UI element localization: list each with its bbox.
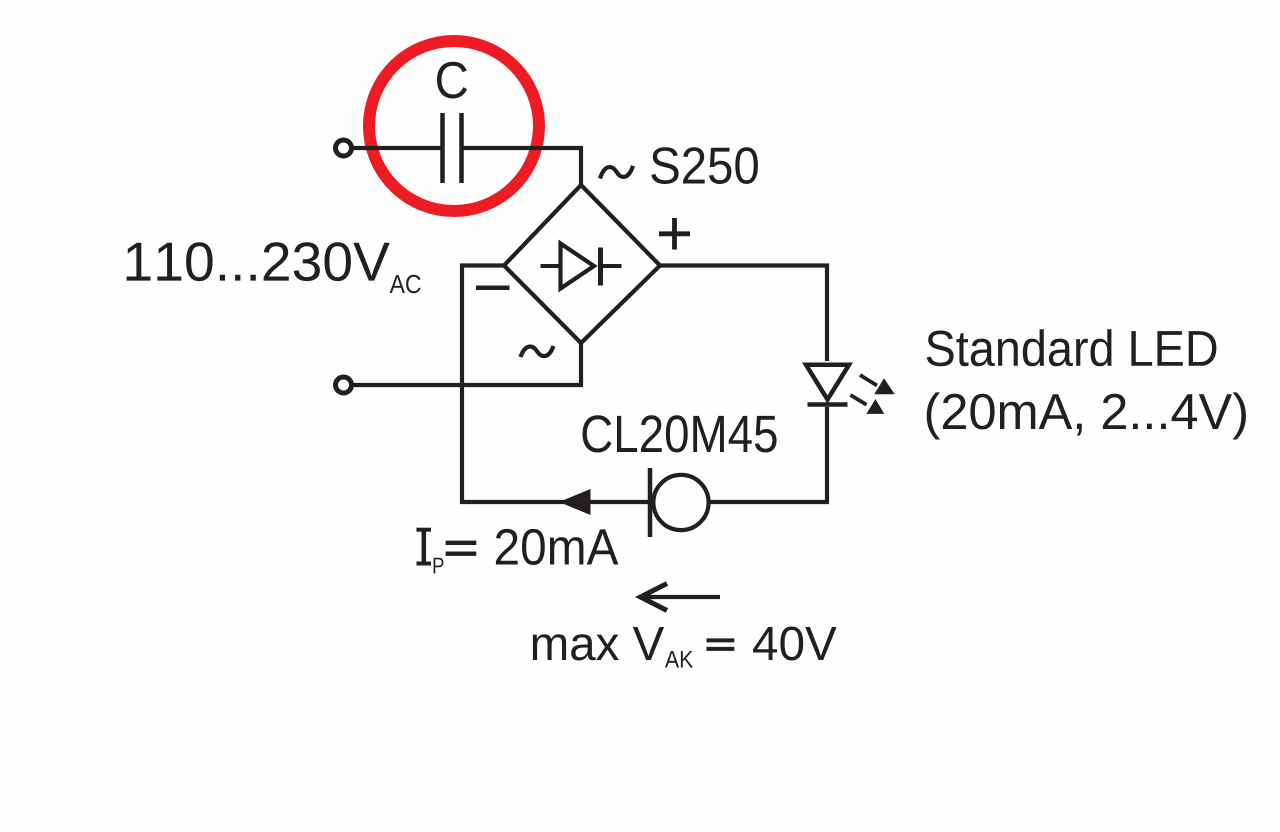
input terminal (top) — [336, 140, 352, 156]
label AC subscript — [390, 275, 421, 294]
label I (serifed) of Ip — [417, 530, 432, 564]
label 40V — [753, 627, 837, 661]
tilde top (AC mark) — [600, 166, 633, 179]
label C — [437, 62, 467, 99]
wire bridge left to left rail — [462, 266, 504, 505]
wire bridge right to LED — [660, 266, 827, 362]
current direction arrow (standalone) — [640, 584, 720, 611]
label S250 — [651, 147, 758, 184]
tilde bottom (AC mark) — [521, 346, 554, 357]
current flow arrowhead on rail — [559, 489, 591, 515]
label AK subscript — [665, 651, 693, 668]
wire capacitor to bridge top — [463, 148, 581, 186]
label = of Ip equation — [446, 543, 477, 554]
input terminal (bottom) — [336, 377, 352, 393]
bridge internal diode — [541, 244, 622, 289]
bottom rail left segment — [460, 500, 652, 504]
label CL20M45 — [583, 415, 777, 452]
wire terminal 2 to bridge bottom — [352, 383, 583, 387]
current regulator bar — [648, 468, 653, 537]
capacitor C plates — [443, 113, 462, 183]
wire bridge bottom vertex down — [579, 343, 583, 385]
LED cathode bar — [808, 402, 848, 407]
label Standard LED — [927, 329, 1217, 366]
LED light arrow 1 — [860, 375, 895, 394]
bridge rectifier S250 diamond — [504, 185, 660, 343]
label max V — [533, 627, 664, 661]
label = 40V — [707, 640, 735, 649]
LED light arrow 2 — [851, 395, 885, 414]
label 20mA — [496, 529, 619, 565]
label 110...230V — [127, 242, 390, 281]
LED D1 triangle — [806, 365, 849, 400]
bottom rail right segment — [709, 500, 829, 504]
plus sign — [659, 218, 690, 250]
label P subscript — [434, 558, 444, 574]
label (20mA, 2...4V) — [927, 392, 1246, 439]
minus sign — [476, 286, 510, 291]
wire terminal to capacitor — [352, 146, 441, 150]
current regulator circle CL20M45 — [653, 475, 708, 530]
wire LED to bottom rail — [825, 407, 829, 502]
red highlight circle around capacitor — [369, 41, 539, 211]
serif feet of digits 1 — [127, 277, 177, 281]
